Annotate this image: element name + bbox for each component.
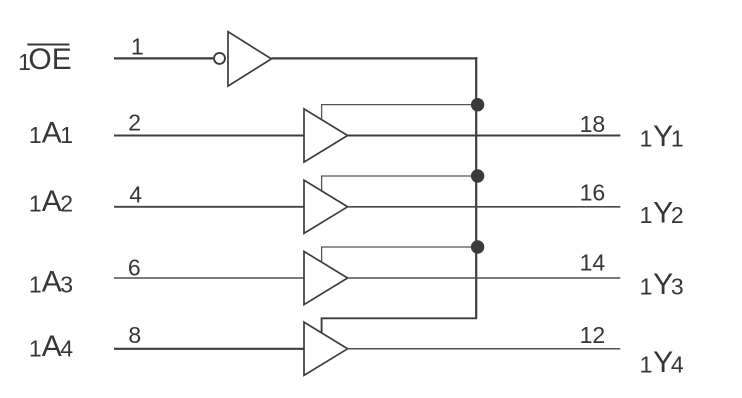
wire inverter output bbox=[271, 57, 477, 59]
svg-text:1: 1 bbox=[671, 126, 684, 152]
wire 1A4 input bbox=[114, 348, 304, 350]
junction dot 2 bbox=[471, 169, 484, 182]
net label 1A3 bbox=[29, 265, 73, 298]
svg-text:1: 1 bbox=[640, 126, 653, 152]
junction dot 3 bbox=[471, 240, 484, 253]
svg-text:2: 2 bbox=[60, 191, 73, 217]
svg-text:A: A bbox=[42, 116, 62, 149]
enable bus vertical wire bbox=[475, 57, 477, 318]
wire 1A3 input bbox=[114, 277, 304, 279]
svg-text:8: 8 bbox=[128, 322, 141, 348]
wire 1Y1 output bbox=[348, 135, 621, 137]
inverter triangle (OE) bbox=[228, 32, 271, 86]
svg-text:1: 1 bbox=[640, 351, 653, 377]
svg-text:1: 1 bbox=[131, 34, 144, 60]
svg-text:1: 1 bbox=[29, 271, 42, 297]
junction dot 1 bbox=[471, 98, 484, 111]
buffer 1 triangle bbox=[304, 109, 348, 162]
wire 1Y4 output bbox=[348, 348, 621, 350]
wire 1Y2 output bbox=[348, 206, 621, 208]
svg-text:OE: OE bbox=[28, 43, 71, 76]
svg-text:16: 16 bbox=[580, 180, 606, 206]
net label 1A1 bbox=[29, 116, 73, 149]
net label 1A4 bbox=[29, 330, 73, 363]
svg-text:1: 1 bbox=[60, 122, 73, 148]
enable wire buffer 3 bbox=[322, 247, 477, 262]
svg-text:A: A bbox=[42, 265, 62, 298]
svg-text:4: 4 bbox=[60, 336, 73, 362]
buffer 3 triangle bbox=[304, 251, 348, 304]
svg-text:4: 4 bbox=[129, 181, 142, 207]
svg-text:4: 4 bbox=[671, 351, 684, 377]
svg-text:3: 3 bbox=[60, 271, 73, 297]
buffer 2 triangle bbox=[304, 180, 348, 233]
inverter input bubble bbox=[214, 53, 225, 64]
wire 1A2 input bbox=[114, 206, 304, 208]
svg-text:1: 1 bbox=[640, 273, 653, 299]
wire 1A1 input bbox=[114, 135, 304, 137]
svg-text:1: 1 bbox=[29, 122, 42, 148]
wire 1OE input bbox=[114, 57, 213, 59]
svg-text:1: 1 bbox=[29, 191, 42, 217]
net label 1Y1 bbox=[640, 120, 684, 153]
net label 1A2 bbox=[29, 185, 73, 218]
svg-text:A: A bbox=[42, 330, 62, 363]
net label 1Y2 bbox=[640, 197, 684, 230]
svg-text:6: 6 bbox=[128, 254, 141, 280]
svg-text:14: 14 bbox=[580, 250, 606, 276]
svg-text:3: 3 bbox=[671, 273, 684, 299]
wire 1Y3 output bbox=[348, 277, 621, 279]
net label 1Y4 bbox=[640, 346, 684, 379]
svg-text:2: 2 bbox=[671, 202, 684, 228]
svg-text:12: 12 bbox=[580, 322, 606, 348]
enable wire buffer 4 bbox=[322, 318, 477, 333]
svg-text:1: 1 bbox=[640, 202, 653, 228]
svg-text:18: 18 bbox=[580, 111, 606, 137]
enable wire buffer 2 bbox=[322, 176, 477, 191]
svg-text:A: A bbox=[42, 185, 62, 218]
net label 1OE bbox=[18, 43, 72, 76]
svg-text:2: 2 bbox=[128, 110, 141, 136]
enable wire buffer 1 bbox=[322, 105, 477, 120]
buffer 4 triangle bbox=[304, 322, 348, 375]
svg-text:1: 1 bbox=[29, 336, 42, 362]
net label 1Y3 bbox=[640, 268, 684, 301]
